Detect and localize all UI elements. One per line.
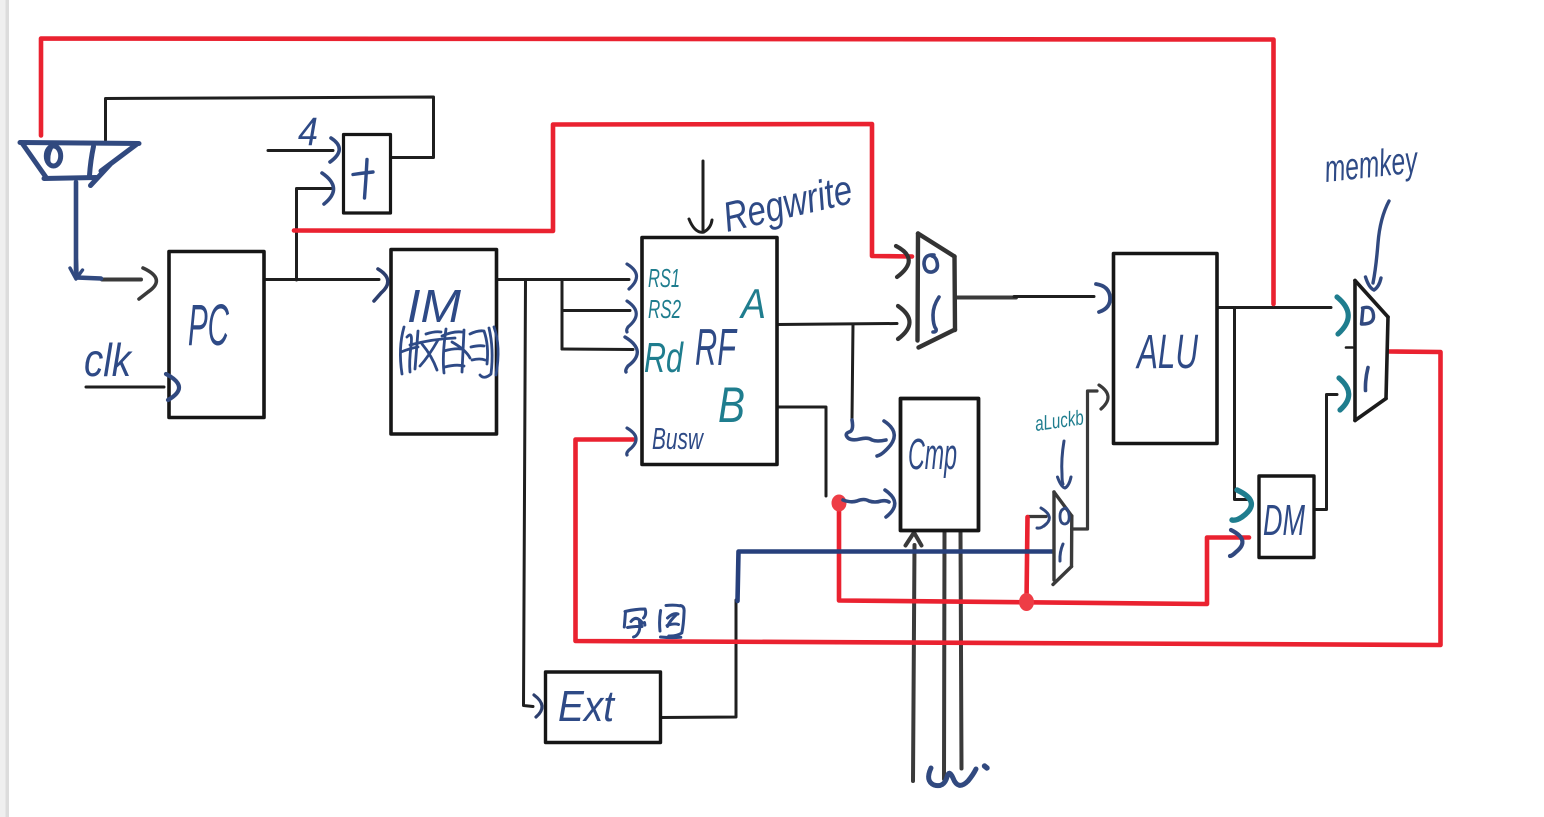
wire: Cmp bottom line 3 [961,532,962,769]
wire: squiggle A into Cmp input 1 (navy) [846,420,886,441]
arrowhead: ALU input 2 [1099,385,1108,409]
arrowhead: RF RS1 input [627,264,637,289]
WIRES-BLUE [70,182,1052,786]
arrowhead: DM write-data input [1230,530,1242,556]
arrowhead: adder input 4 [330,138,339,162]
svg-text:Regwrite: Regwrite [718,166,856,241]
arrowhead: mux M3 input 0 [1337,297,1348,334]
arrowhead: Ext input [534,695,542,717]
ALU U5 [1114,254,1218,444]
wire: adder feedback loop to mux M1 input 1 [106,97,434,158]
adder U2 (+4) [344,135,391,214]
register PC U1 [169,252,264,418]
mux M4 label 0 [1060,508,1069,524]
mux M2 label 0 [924,255,937,272]
svg-text:Busw: Busw [652,421,705,456]
svg-text:clk: clk [84,334,133,386]
arrowhead: adder input PC [322,173,334,204]
mux M3 label 1 [1365,368,1368,391]
control arrow: memkey curved down to mux M3 [1373,201,1389,283]
wire: mux M2 output to ALU input 1 [955,296,1016,300]
wire: mux M4 output up to ALU input 2 [1072,391,1098,529]
junction dot on B line [832,495,847,512]
wire: branch to RS2 and Rd [561,281,564,349]
svg-text:ALU: ALU [1135,326,1198,379]
svg-text:Ext: Ext [558,682,616,731]
sign extender Ext U8 [546,672,661,743]
wire: stub into mux M4 input 0 [1028,515,1046,518]
mux M2 (ALU srcA select, dark trapezoid) [918,234,956,348]
wire: instruction field down to Ext [524,281,534,707]
arrowhead: mux M3 input 1 [1339,378,1349,410]
wire: immediate from Ext to mux M4 input 1 (navy) [738,552,1053,602]
arrowhead: mux M2 input 0 [896,246,909,277]
mux M4 label 1 [1060,544,1063,561]
wire: constant 4 into adder U2 [268,149,333,152]
svg-text:A: A [738,280,766,327]
svg-text:RS2: RS2 [648,294,681,324]
wire: Cmp bottom line 2 [942,532,947,780]
wire: B value to DM write data (red) [839,503,1249,604]
control arrow: aLuckd down to mux M4 [1062,441,1064,484]
arrowhead: Regwrite down arrow [689,219,712,232]
tick mark left of mux M3 [1346,346,1353,349]
svg-text:4: 4 [298,110,318,154]
data memory DM U7 [1259,476,1314,558]
wire: PC value to mux M2 input 0 (red) [294,124,912,257]
comparator Cmp U6 [901,399,979,531]
arrowhead: mux M2 input 1 [898,306,910,339]
mux M1 label 1 [90,147,94,176]
arrowhead: PC clk chevron [166,374,179,400]
wire: PC value up to adder U2 second input [297,189,332,281]
page left margin strip [0,0,9,817]
svg-text:IM: IM [407,280,462,332]
register file RF U4 [642,238,777,465]
svg-text:DM: DM [1263,496,1305,545]
arrowhead: Cmp input 1 [877,421,894,456]
wire: PC output to IM [264,278,379,281]
instruction memory IM U3 [391,250,497,435]
svg-text:Rd: Rd [644,334,684,381]
WIRES-RED [41,39,1441,646]
arrowhead: RF Busw input [627,428,636,455]
svg-text:RS1: RS1 [648,263,680,293]
wire: branch up to mux M4 input 0 (red) [1027,517,1028,602]
wire: Cmp bottom control line with up arrow [913,545,915,781]
wire: RF B output down [777,407,826,496]
arrowhead: IM address input [374,269,388,301]
wire: clk stub into PC [86,386,164,389]
arrowhead: PC data input [139,268,156,299]
wire: RF A output to mux M2 input 1 [777,324,897,325]
svg-text:RF: RF [695,319,738,377]
wire: DM output up to mux M3 input 1 [1314,395,1337,510]
wire: write-back from mux M3 output to RF Busw (red) [576,352,1441,646]
handwritten plus sign inside adder [353,160,373,199]
wire: ALU output branch down to DM address [1235,308,1250,500]
wire: mux M1 output down to PC input (navy) [76,182,101,279]
wire: mux M1 output elbow into PC (black part) [102,278,141,282]
svg-text:aLuckb: aLuckb [1033,406,1085,436]
arrowhead: RF RS2 input [627,301,637,332]
BOXES [169,135,1314,743]
wire: Regwrite control into RF top [702,161,705,230]
wire: IM instruction bus to RF RS1 [497,278,630,281]
svg-text:Cmp: Cmp [908,430,957,479]
WIRES-BLACK [86,97,1337,781]
squiggle mark under Cmp lines (navy) [929,768,976,786]
wire: squiggle B into Cmp input 2 (navy) [843,500,889,503]
wire: A branch down to Cmp [852,324,853,420]
svg-text:PC: PC [188,293,230,358]
mux M1 label 0 [46,146,60,166]
wire: ALU result feedback across top into mux M1 input 0 (red) [41,39,1274,305]
arrowhead: Cmp input 2 [885,490,895,517]
arrowhead: DM address input [1232,490,1251,520]
mux M3 label 0 (written as D) [1362,307,1374,324]
mux M2 label 1 [933,297,939,332]
wire: Ext output elbow (black part) [661,600,737,718]
svg-text:B: B [718,377,745,433]
mux M4 (ALU srcB select, dark trapezoid) [1053,492,1072,585]
junction dot on store-data line [1019,593,1034,611]
wire: ALU output to mux M3 input 0 [1217,306,1331,309]
arrowhead: ALU input 1 [1096,284,1110,312]
mux M1 (next-PC select, navy trapezoid) [20,143,139,186]
scribble: Chinese annotation under IM (指令存储) [400,327,498,377]
arrowhead: RF Rd input [625,337,637,372]
arrowhead: mux M4 input 0 [1037,508,1049,528]
scribble: Chinese annotation 写回 (write back) [624,605,684,638]
svg-text:memkey: memkey [1323,139,1421,191]
mux M3 (write-back select, black trapezoid) [1355,281,1388,421]
